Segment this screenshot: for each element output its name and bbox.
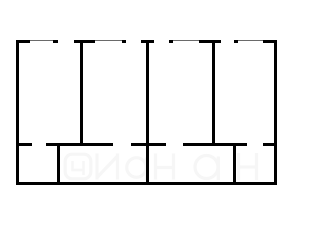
wall mid M3 <box>131 143 167 146</box>
wall tick T6 <box>169 40 173 43</box>
window W2 <box>95 40 122 41</box>
wall mid M4 <box>183 143 248 146</box>
watermark letter н <box>156 154 174 180</box>
window W4 <box>238 40 263 41</box>
wall interior v3 <box>212 40 215 147</box>
wall interior v2 <box>146 40 149 185</box>
wall tick T8 <box>234 40 238 43</box>
wall left outer <box>16 40 19 185</box>
window W1 <box>30 40 53 41</box>
wall interior v1 <box>80 40 83 147</box>
wall tick T2 <box>53 40 58 43</box>
wall interior vB <box>233 143 236 185</box>
watermark logo Ц <box>73 161 84 175</box>
watermark logo square <box>65 154 91 179</box>
wall top T9 <box>263 40 278 43</box>
wall mid M5 <box>263 143 277 146</box>
watermark letter а2 <box>195 156 218 179</box>
wall mid M2 <box>46 143 113 146</box>
wall right outer <box>274 40 277 185</box>
wall mid M1 <box>16 143 32 146</box>
wall top T1 <box>16 40 30 43</box>
wall top T7 <box>199 40 222 43</box>
wall tick T4 <box>122 40 126 43</box>
wall top T3 <box>74 40 95 43</box>
wall top T5 cap <box>141 40 154 43</box>
watermark letter и <box>97 154 118 180</box>
wall interior vA <box>57 143 60 185</box>
watermark letter н2 <box>239 153 257 180</box>
wall bottom <box>16 182 278 185</box>
window W3 <box>173 40 199 41</box>
watermark letter а <box>127 158 147 178</box>
